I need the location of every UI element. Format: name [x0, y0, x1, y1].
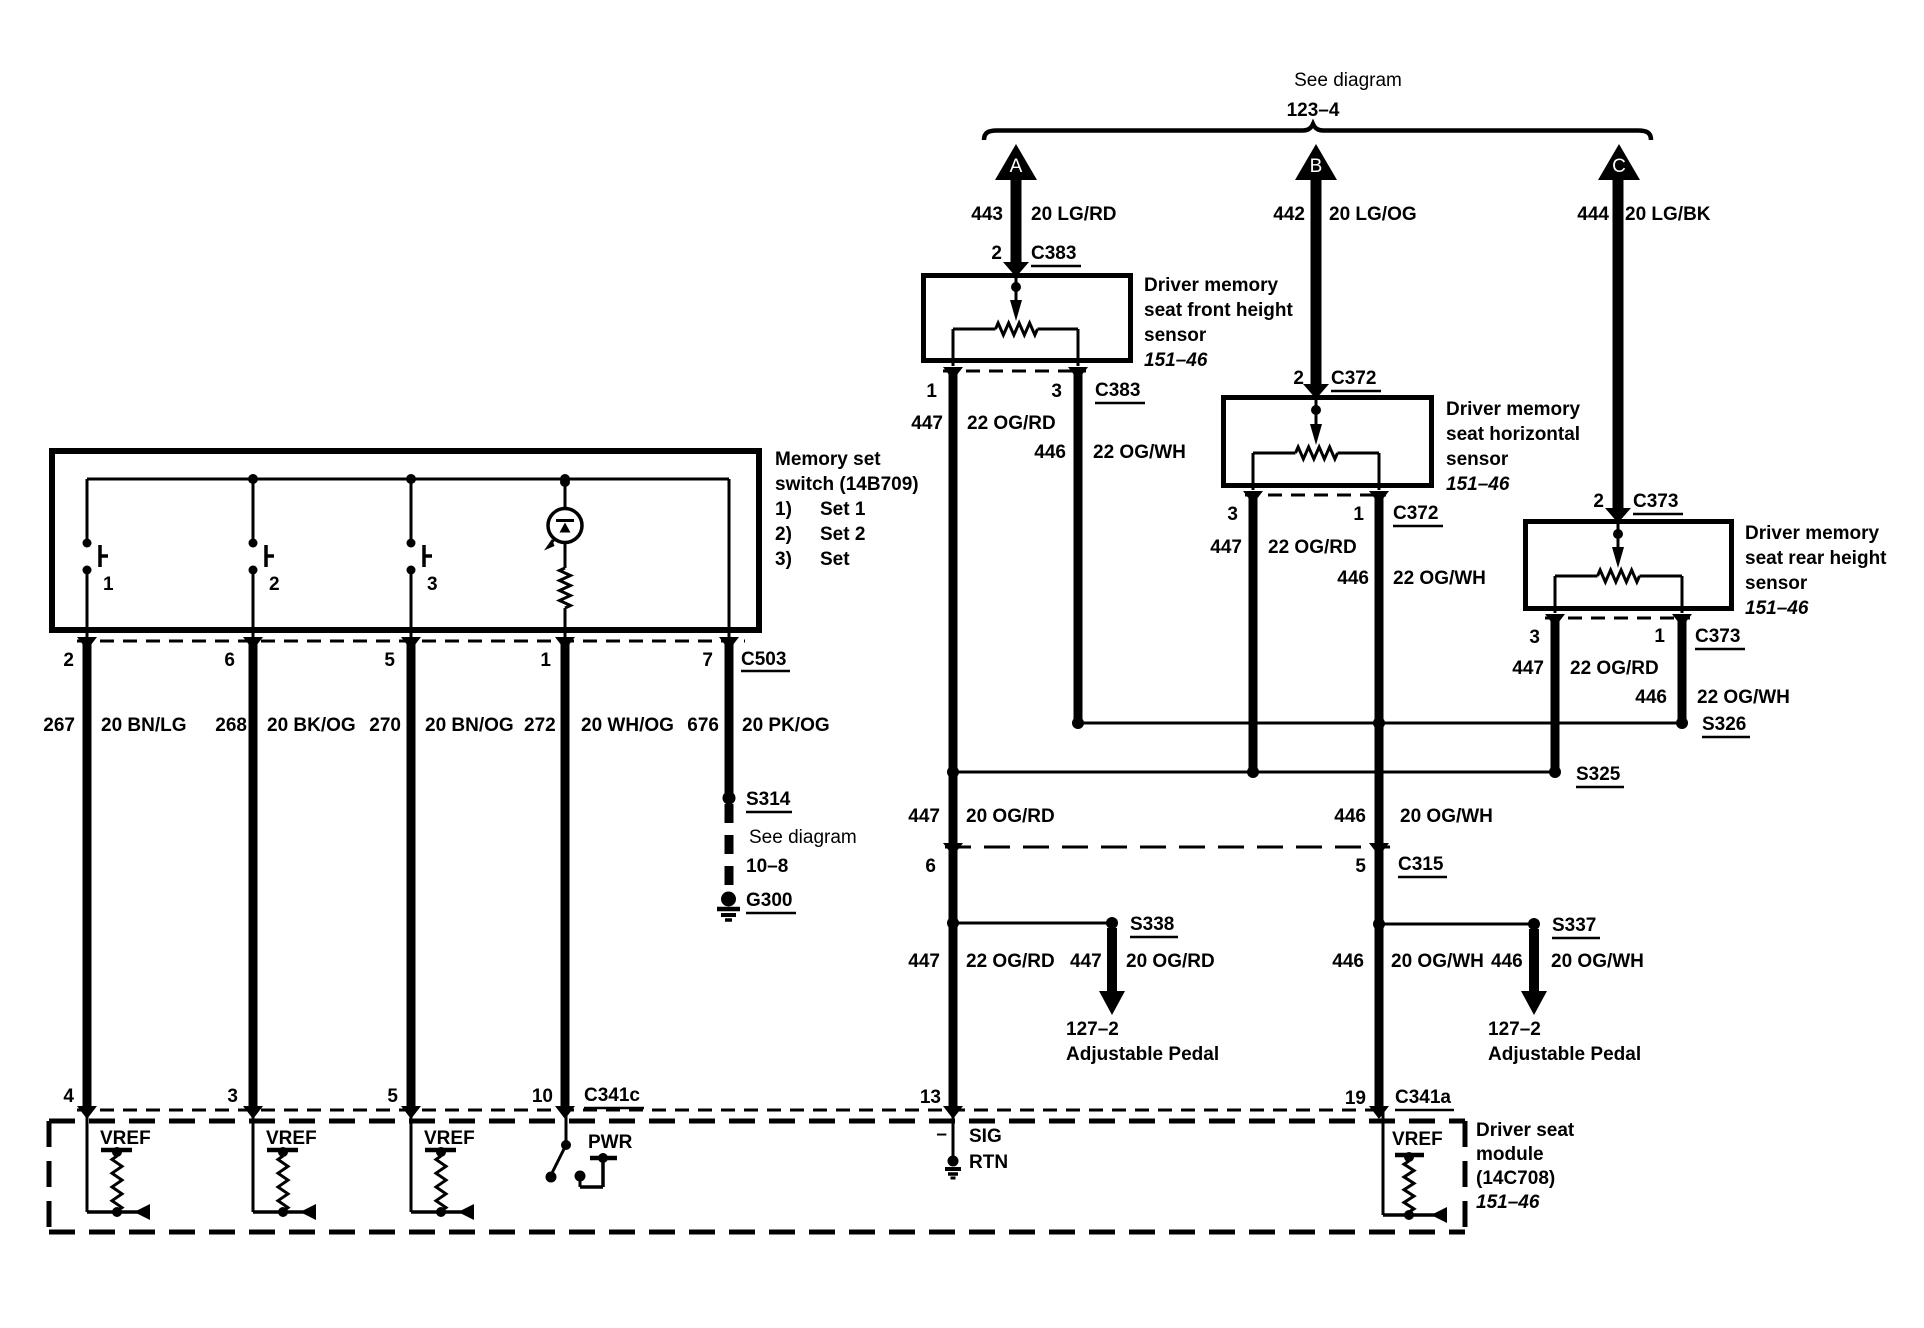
svg-text:10–8: 10–8 — [746, 856, 788, 877]
label pins 1 3 C383 (bottom) — [926, 380, 1145, 403]
svg-text:S325: S325 — [1576, 764, 1621, 785]
svg-text:Driver seat: Driver seat — [1476, 1120, 1575, 1141]
sensor3 leg arrowheads — [1545, 614, 1565, 627]
svg-text:seat front height: seat front height — [1144, 300, 1294, 321]
C341a wire arrowheads — [943, 1106, 963, 1119]
svg-text:272: 272 — [524, 715, 556, 736]
svg-text:1: 1 — [1654, 626, 1665, 647]
resistor in sensor3 — [1598, 570, 1640, 582]
label 447 22 OG/RD (sensor1) — [911, 413, 1055, 434]
label pin 2 C372 (top) — [1293, 368, 1381, 391]
wire splice S338 net — [953, 922, 1112, 925]
svg-text:C341a: C341a — [1395, 1087, 1451, 1108]
svg-text:10: 10 — [532, 1086, 553, 1107]
label S314 — [746, 789, 792, 812]
connector C372 dashed line — [1245, 494, 1386, 497]
svg-text:443: 443 — [971, 204, 1003, 225]
ground G300 symbol — [717, 892, 740, 921]
switch S3 (set 3) — [407, 479, 438, 639]
svg-text:See diagram: See diagram — [749, 827, 857, 848]
svg-text:3: 3 — [1227, 504, 1238, 525]
label 447 22 OG/RD / 447 20 OG/RD (below S338) — [908, 951, 1214, 972]
svg-text:22 OG/WH: 22 OG/WH — [1393, 568, 1486, 589]
label 447 22 OG/RD (sensor2) — [1210, 537, 1356, 558]
sensor1 leg arrowheads — [943, 367, 963, 380]
svg-text:(14C708): (14C708) — [1476, 1168, 1555, 1189]
VREF pull-up resistor (pin 5) — [411, 1112, 475, 1220]
svg-text:VREF: VREF — [424, 1128, 475, 1149]
svg-text:C373: C373 — [1633, 491, 1678, 512]
svg-text:127–2: 127–2 — [1488, 1019, 1541, 1040]
wire splice S326 net — [1078, 722, 1682, 725]
svg-text:3: 3 — [227, 1086, 238, 1107]
sensor1 resistor bracket wires — [953, 328, 996, 331]
svg-text:C373: C373 — [1695, 626, 1740, 647]
svg-text:3): 3) — [775, 549, 792, 570]
svg-text:22 OG/WH: 22 OG/WH — [1697, 687, 1790, 708]
svg-text:Adjustable Pedal: Adjustable Pedal — [1488, 1044, 1641, 1065]
label S325 — [1576, 764, 1624, 787]
svg-text:switch (14B709): switch (14B709) — [775, 474, 919, 495]
svg-text:446: 446 — [1332, 951, 1364, 972]
svg-text:20 PK/OG: 20 PK/OG — [742, 715, 830, 736]
wire 268 20 BK/OG — [249, 642, 258, 1111]
connector C383 dashed line — [943, 370, 1086, 373]
wire 447 22 OG/RD leg (sensor2 pin3) — [1249, 496, 1258, 772]
svg-text:module: module — [1476, 1144, 1544, 1165]
svg-text:1: 1 — [540, 650, 551, 671]
SIG RTN ground (pin 13) — [936, 1112, 1008, 1178]
svg-text:sensor: sensor — [1144, 325, 1207, 346]
C503 wire arrowheads — [77, 637, 97, 650]
svg-text:S314: S314 — [746, 789, 791, 810]
svg-text:22 OG/WH: 22 OG/WH — [1093, 442, 1186, 463]
svg-text:C372: C372 — [1331, 368, 1376, 389]
svg-text:C315: C315 — [1398, 854, 1444, 875]
label 446 22 OG/WH (sensor3) — [1635, 687, 1790, 708]
svg-text:5: 5 — [384, 650, 395, 671]
sensor U2 box (driver memory seat horizontal sensor) — [1224, 398, 1432, 486]
wire splice S325 net — [953, 771, 1555, 774]
svg-text:6: 6 — [224, 650, 235, 671]
svg-text:1: 1 — [1353, 504, 1364, 525]
svg-text:7: 7 — [702, 650, 713, 671]
connector C373 dashed line — [1545, 617, 1690, 620]
svg-text:20 BN/OG: 20 BN/OG — [425, 715, 514, 736]
svg-text:442: 442 — [1273, 204, 1305, 225]
svg-text:Driver memory: Driver memory — [1745, 523, 1880, 544]
svg-text:RTN: RTN — [969, 1152, 1008, 1173]
svg-text:5: 5 — [1355, 856, 1366, 877]
wire splice S337 net — [1379, 923, 1534, 926]
svg-text:Driver memory: Driver memory — [1144, 275, 1279, 296]
label 127-2 Adjustable Pedal (left) — [1066, 1019, 1219, 1065]
svg-text:C383: C383 — [1095, 380, 1140, 401]
sensor2 resistor bracket wires — [1253, 452, 1296, 455]
label 446 20 OG/WH / 446 20 OG/WH (below S337) — [1332, 951, 1644, 972]
svg-text:2: 2 — [991, 243, 1002, 264]
connector C341c/C341a dashed line — [77, 1109, 1384, 1112]
sensor U3 box (driver memory seat rear height sensor) — [1526, 522, 1732, 609]
label G300 — [746, 890, 796, 913]
wire 442 stem from B — [1311, 179, 1322, 385]
svg-text:20 LG/BK: 20 LG/BK — [1625, 204, 1711, 225]
svg-text:2: 2 — [269, 574, 280, 595]
label: See diagram 123-4 (top) — [1287, 70, 1402, 121]
svg-text:seat rear height: seat rear height — [1745, 548, 1887, 569]
label wire 442 20 LG/OG — [1273, 204, 1416, 225]
svg-text:G300: G300 — [746, 890, 792, 911]
svg-text:447: 447 — [1070, 951, 1102, 972]
svg-text:B: B — [1310, 156, 1323, 177]
label S337 — [1552, 915, 1600, 938]
svg-text:22 OG/RD: 22 OG/RD — [1268, 537, 1357, 558]
svg-text:C: C — [1612, 156, 1626, 177]
svg-text:20 OG/WH: 20 OG/WH — [1391, 951, 1484, 972]
label pins 13 19 C341a — [920, 1087, 1454, 1110]
sensor2 leg arrowheads — [1243, 491, 1263, 504]
svg-text:4: 4 — [63, 1086, 74, 1107]
VREF pull-up resistor (pin 19) — [1383, 1112, 1447, 1223]
sensor2 wiper wire — [1315, 399, 1318, 427]
svg-text:20 LG/RD: 20 LG/RD — [1031, 204, 1117, 225]
label wire 443 20 LG/RD — [971, 204, 1116, 225]
svg-text:22 OG/RD: 22 OG/RD — [967, 413, 1056, 434]
label 446 20 OG/WH (above C315) — [1334, 806, 1493, 827]
switch S1 (set 1) — [83, 479, 115, 639]
resistor in sensor1 — [996, 323, 1038, 335]
wire 267 20 BN/LG — [83, 642, 92, 1111]
splice S314 — [723, 792, 736, 805]
C315 wire arrowheads — [943, 843, 963, 856]
svg-text:268: 268 — [215, 715, 247, 736]
svg-text:3: 3 — [1051, 381, 1062, 402]
lamp series resistor — [560, 568, 571, 608]
label driver seat module — [1476, 1120, 1575, 1213]
svg-text:S326: S326 — [1702, 714, 1746, 735]
node C (off-page arrow) — [1598, 144, 1640, 180]
label pins 4 3 5 10 C341c — [63, 1085, 644, 1108]
svg-text:446: 446 — [1034, 442, 1066, 463]
svg-text:446: 446 — [1491, 951, 1523, 972]
label S326 — [1702, 714, 1750, 737]
svg-text:PWR: PWR — [588, 1132, 633, 1153]
svg-text:Driver memory: Driver memory — [1446, 399, 1581, 420]
label pin 2 C383 (top) — [991, 243, 1081, 266]
svg-text:–: – — [936, 1124, 947, 1145]
wire 446 22 OG/WH leg (sensor1 pin3) — [1074, 372, 1083, 723]
svg-text:127–2: 127–2 — [1066, 1019, 1119, 1040]
wire 443 stem from A — [1011, 179, 1022, 263]
svg-text:sensor: sensor — [1745, 573, 1808, 594]
svg-text:See diagram: See diagram — [1294, 70, 1402, 91]
svg-text:2: 2 — [63, 650, 74, 671]
svg-text:1): 1) — [775, 499, 792, 520]
svg-text:20 WH/OG: 20 WH/OG — [581, 715, 674, 736]
svg-text:267: 267 — [43, 715, 75, 736]
svg-text:C383: C383 — [1031, 243, 1076, 264]
svg-text:22 OG/RD: 22 OG/RD — [966, 951, 1055, 972]
svg-text:S337: S337 — [1552, 915, 1596, 936]
svg-text:447: 447 — [908, 806, 940, 827]
resistor in sensor2 — [1296, 447, 1338, 459]
bus drop to pin 7 — [728, 479, 731, 639]
VREF pull-up resistor (pin 3) — [253, 1112, 317, 1220]
svg-text:20 OG/WH: 20 OG/WH — [1400, 806, 1493, 827]
wire 446 22 OG/WH leg (sensor2 pin1) — [1375, 496, 1384, 1111]
svg-text:447: 447 — [1210, 537, 1242, 558]
svg-text:VREF: VREF — [100, 1128, 151, 1149]
sensor3 wiper wire — [1617, 523, 1620, 550]
label see diagram 10-8 — [746, 827, 857, 877]
label wire row 267/268/270/272/676 — [43, 715, 829, 736]
sensor1 wiper wire — [1015, 277, 1018, 303]
svg-text:13: 13 — [920, 1087, 941, 1108]
svg-text:3: 3 — [1529, 627, 1540, 648]
svg-text:Adjustable Pedal: Adjustable Pedal — [1066, 1044, 1219, 1065]
svg-text:446: 446 — [1635, 687, 1667, 708]
svg-text:C372: C372 — [1393, 503, 1438, 524]
label wire 444 20 LG/BK — [1577, 204, 1711, 225]
svg-text:1: 1 — [103, 574, 114, 595]
svg-text:151–46: 151–46 — [1476, 1192, 1540, 1213]
wire 446 22 OG/WH leg (sensor3 pin1) — [1678, 619, 1687, 723]
svg-text:446: 446 — [1337, 568, 1369, 589]
indicator lamp (LED) in switch box — [544, 477, 582, 568]
svg-text:446: 446 — [1334, 806, 1366, 827]
label pin 2 C373 (top) — [1593, 491, 1683, 514]
wire 446 20 OG/WH arrow to adjustable pedal — [1529, 929, 1539, 992]
svg-text:A: A — [1010, 156, 1023, 177]
label sensor3 name — [1745, 523, 1887, 619]
label 446 22 OG/WH (sensor1) — [1034, 442, 1186, 463]
driver seat module box (14C708) dashed border — [49, 1119, 1465, 1124]
switch internal bus wire — [87, 478, 729, 481]
svg-text:2: 2 — [1593, 491, 1604, 512]
svg-text:1: 1 — [926, 381, 937, 402]
wire 272 20 WH/OG — [561, 642, 570, 1111]
svg-text:447: 447 — [1512, 658, 1544, 679]
svg-text:447: 447 — [908, 951, 940, 972]
connector C315 dashed line — [945, 846, 1390, 849]
label sensor1 name — [1144, 275, 1294, 371]
svg-text:2: 2 — [1293, 368, 1304, 389]
svg-text:444: 444 — [1577, 204, 1609, 225]
svg-text:151–46: 151–46 — [1745, 598, 1809, 619]
svg-text:19: 19 — [1345, 1088, 1366, 1109]
svg-text:VREF: VREF — [266, 1128, 317, 1149]
label S338 — [1130, 914, 1178, 937]
node A (off-page arrow) — [995, 144, 1037, 180]
svg-text:20 OG/WH: 20 OG/WH — [1551, 951, 1644, 972]
wire 444 stem from C — [1613, 179, 1624, 509]
C341c wire arrowheads — [77, 1106, 97, 1119]
wire 447 20 OG/RD arrow to adjustable pedal — [1107, 928, 1117, 992]
svg-text:3: 3 — [427, 574, 438, 595]
label 446 22 OG/WH (sensor2) — [1337, 568, 1486, 589]
svg-text:SIG: SIG — [969, 1126, 1002, 1147]
svg-text:123–4: 123–4 — [1287, 100, 1340, 121]
connector C503 dashed line — [77, 640, 745, 643]
wire 447 22 OG/RD leg (sensor1 pin1) — [949, 372, 958, 1111]
svg-text:20 BN/LG: 20 BN/LG — [101, 715, 187, 736]
brace spanning A B C — [984, 124, 1651, 140]
label 447 22 OG/RD (sensor3) — [1512, 658, 1658, 679]
svg-text:270: 270 — [369, 715, 401, 736]
VREF pull-up resistor (pin 4) — [87, 1112, 151, 1220]
memory set switch box (14B709) — [52, 451, 759, 630]
wire 270 20 BN/OG — [407, 642, 416, 1111]
svg-text:20 BK/OG: 20 BK/OG — [267, 715, 356, 736]
svg-text:151–46: 151–46 — [1144, 350, 1208, 371]
svg-text:2): 2) — [775, 524, 792, 545]
svg-text:5: 5 — [387, 1086, 398, 1107]
svg-text:Memory set: Memory set — [775, 449, 881, 470]
wire 676 20 PK/OG — [725, 642, 734, 794]
label sensor2 name — [1446, 399, 1581, 495]
wire to G300 (dashed) — [725, 804, 734, 892]
svg-text:20 LG/OG: 20 LG/OG — [1329, 204, 1417, 225]
label pins 3 1 C373 (bottom) — [1529, 626, 1745, 649]
svg-text:sensor: sensor — [1446, 449, 1509, 470]
svg-text:6: 6 — [925, 856, 936, 877]
svg-text:151–46: 151–46 — [1446, 474, 1510, 495]
switch S2 (set 2) — [249, 479, 280, 639]
label pins 2 6 5 1 7 C503 — [63, 649, 790, 671]
sensor U1 box (driver memory seat front height sensor) — [924, 276, 1131, 361]
svg-text:S338: S338 — [1130, 914, 1174, 935]
svg-text:22 OG/RD: 22 OG/RD — [1570, 658, 1659, 679]
svg-text:seat horizontal: seat horizontal — [1446, 424, 1580, 445]
node B (off-page arrow) — [1295, 144, 1337, 180]
label 447 20 OG/RD (above C315) — [908, 806, 1054, 827]
sensor3 resistor bracket wires — [1555, 575, 1598, 578]
svg-text:Set 1: Set 1 — [820, 499, 866, 520]
svg-text:C503: C503 — [741, 649, 786, 670]
label pins 6 5 C315 — [925, 854, 1447, 877]
wire 447 22 OG/RD leg (sensor3 pin3) — [1551, 619, 1560, 772]
svg-text:Set 2: Set 2 — [820, 524, 865, 545]
svg-text:447: 447 — [911, 413, 943, 434]
svg-text:20 OG/RD: 20 OG/RD — [966, 806, 1055, 827]
svg-text:Set: Set — [820, 549, 850, 570]
svg-text:C341c: C341c — [584, 1085, 640, 1106]
svg-text:VREF: VREF — [1392, 1129, 1443, 1150]
label pins 3 1 C372 (bottom) — [1227, 503, 1443, 526]
label 127-2 Adjustable Pedal (right) — [1488, 1019, 1641, 1065]
label memory set switch legend — [775, 449, 919, 570]
svg-text:676: 676 — [687, 715, 719, 736]
svg-text:20 OG/RD: 20 OG/RD — [1126, 951, 1215, 972]
PWR switch contact (pin 10) — [546, 1112, 633, 1187]
